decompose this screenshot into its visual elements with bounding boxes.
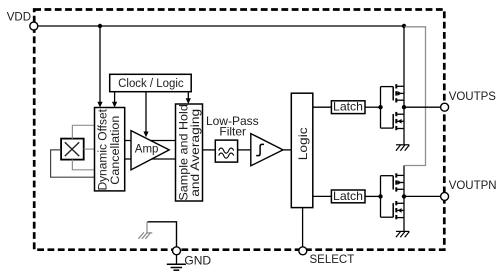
filter F1 (low-pass filter box) [215, 140, 237, 162]
svg-text:Dynamic Offset: Dynamic Offset [98, 108, 110, 190]
chip boundary (dashed) [34, 10, 444, 250]
transistor Q4 (N-channel, bottom pair bottom) [393, 201, 404, 219]
svg-text:VDD: VDD [7, 12, 31, 24]
wire gray VDD feed to lower output pair [404, 27, 426, 166]
node junction on VDD rail (DOC branch) [98, 24, 102, 28]
op-amp Amp [131, 131, 169, 170]
wire chopper link right (gray) [84, 148, 95, 150]
wire Clock/Logic to Sample and Hold with arrow [186, 92, 191, 104]
wire chopper loop top (gray) [72, 125, 94, 138]
transistor Q2 (N-channel, bottom of top pair) [393, 112, 404, 130]
wire output conductor top pair [403, 26, 405, 145]
wire chopper loop bottom (gray) [72, 160, 94, 170]
svg-text:SELECT: SELECT [310, 254, 355, 266]
node output top pair [402, 105, 406, 109]
comparator Schmitt trigger [251, 134, 283, 166]
svg-text:Clock / Logic: Clock / Logic [118, 78, 184, 90]
terminal VDD [30, 22, 38, 30]
ground chassis (top pair) [396, 145, 409, 151]
latch L2 [331, 190, 365, 203]
wire Logic to Latch 1 [313, 106, 332, 108]
svg-text:VOUTPN: VOUTPN [449, 180, 497, 192]
wire differential pair DOC to S&H (top) [125, 140, 176, 142]
block Clock/Logic [110, 74, 192, 91]
node gate junction top pair [378, 105, 382, 109]
wire to VOUTPN [404, 195, 441, 197]
ground earth (below GND pin) [167, 254, 186, 270]
svg-text:Logic: Logic [296, 127, 310, 160]
terminal GND [173, 247, 181, 255]
output stage bottom: gate bus [381, 176, 394, 218]
wire substrate drop (gray) [146, 222, 148, 233]
ground chassis (bottom pair) [396, 231, 409, 237]
wire Latch 1 to gate node [365, 106, 381, 108]
wire Latch 2 to gate node [365, 195, 381, 197]
node gate junction bottom pair [378, 194, 382, 198]
wire Logic to Latch 2 [313, 195, 332, 197]
wire Schmitt to Logic [283, 149, 291, 151]
svg-text:VOUTPS: VOUTPS [449, 91, 497, 103]
wire differential pair DOC to S&H (bottom) [125, 158, 176, 160]
block Logic [291, 93, 313, 207]
wire substrate ground near GND pin [148, 222, 177, 247]
svg-text:GND: GND [184, 254, 211, 268]
svg-text:Latch: Latch [333, 101, 363, 114]
output stage top: gate bus [381, 87, 394, 129]
ground chassis (substrate, small, gray) [138, 232, 152, 238]
svg-text:Cancellation: Cancellation [110, 116, 122, 185]
transistor Q1 (P-channel, top) [393, 84, 404, 102]
terminal VOUTPN [441, 192, 449, 200]
block Sample and Hold and Averaging [176, 104, 203, 201]
transistor Q3 (P-channel, bottom pair top) [393, 173, 404, 191]
wire VDD rail [37, 25, 405, 27]
wire to VOUTPS [404, 106, 441, 108]
terminal SELECT [299, 247, 307, 255]
wire LPF to Schmitt [238, 149, 251, 151]
node junction on VDD rail (output stage) [402, 24, 406, 28]
wire VDD branch to Dynamic Offset Cancellation with arrow [97, 26, 102, 108]
block Dynamic Offset Cancellation [95, 108, 125, 191]
wire chopper loop left (dark) [51, 150, 95, 177]
wire S&H to Low-Pass Filter [203, 149, 216, 151]
svg-text:and Averaging: and Averaging [188, 109, 202, 197]
wire Clock/Logic to Amp with arrow [143, 92, 148, 138]
terminal VOUTPS [441, 103, 449, 111]
wire Logic to SELECT pin [302, 208, 304, 247]
wire Clock/Logic to DOC with arrow [112, 92, 117, 108]
node output bottom pair [402, 194, 406, 198]
hall element X1 (box with X) [61, 139, 84, 160]
latch L1 [331, 101, 365, 114]
svg-text:Latch: Latch [333, 190, 363, 203]
label Low-Pass Filter [206, 114, 259, 139]
svg-text:Filter: Filter [219, 125, 246, 139]
svg-text:Amp: Amp [135, 143, 159, 155]
wire output conductor bottom pair [403, 166, 405, 232]
